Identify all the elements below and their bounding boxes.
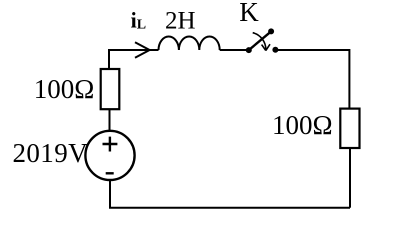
plus sign of source xyxy=(103,137,118,152)
switch K right contact node xyxy=(272,47,278,53)
svg-text:100Ω: 100Ω xyxy=(272,110,333,140)
svg-text:100Ω: 100Ω xyxy=(34,74,95,104)
minus sign of source xyxy=(106,172,114,174)
bottom rail wire xyxy=(109,207,350,209)
svg-text:i: i xyxy=(131,7,137,32)
switch K left contact node xyxy=(246,47,252,53)
svg-text:2019V: 2019V xyxy=(13,138,89,168)
switch K closing motion arrow xyxy=(253,33,266,51)
wire resistor R1 to source V1 xyxy=(109,110,111,130)
current arrow iL on top wire xyxy=(135,42,150,58)
switch K blade xyxy=(249,31,271,50)
svg-text:K: K xyxy=(239,0,259,27)
wire inductor to switch xyxy=(220,49,249,51)
resistor R1 100 ohm (left, vertical) xyxy=(101,69,120,109)
voltage source V1 2019V xyxy=(85,131,134,180)
svg-text:2H: 2H xyxy=(165,8,196,35)
wire top-left horizontal from node above source branch to inductor xyxy=(109,50,159,68)
wire bottom rail up to resistor R2 xyxy=(349,149,351,208)
resistor R2 100 ohm (right, vertical) xyxy=(340,109,359,148)
inductor L1 2H xyxy=(159,37,220,51)
switch K blade tip node xyxy=(268,28,274,34)
wire switch to top-right corner down to resistor R2 xyxy=(275,50,349,108)
wire source V1 to bottom rail xyxy=(109,181,111,208)
svg-text:L: L xyxy=(137,18,146,33)
